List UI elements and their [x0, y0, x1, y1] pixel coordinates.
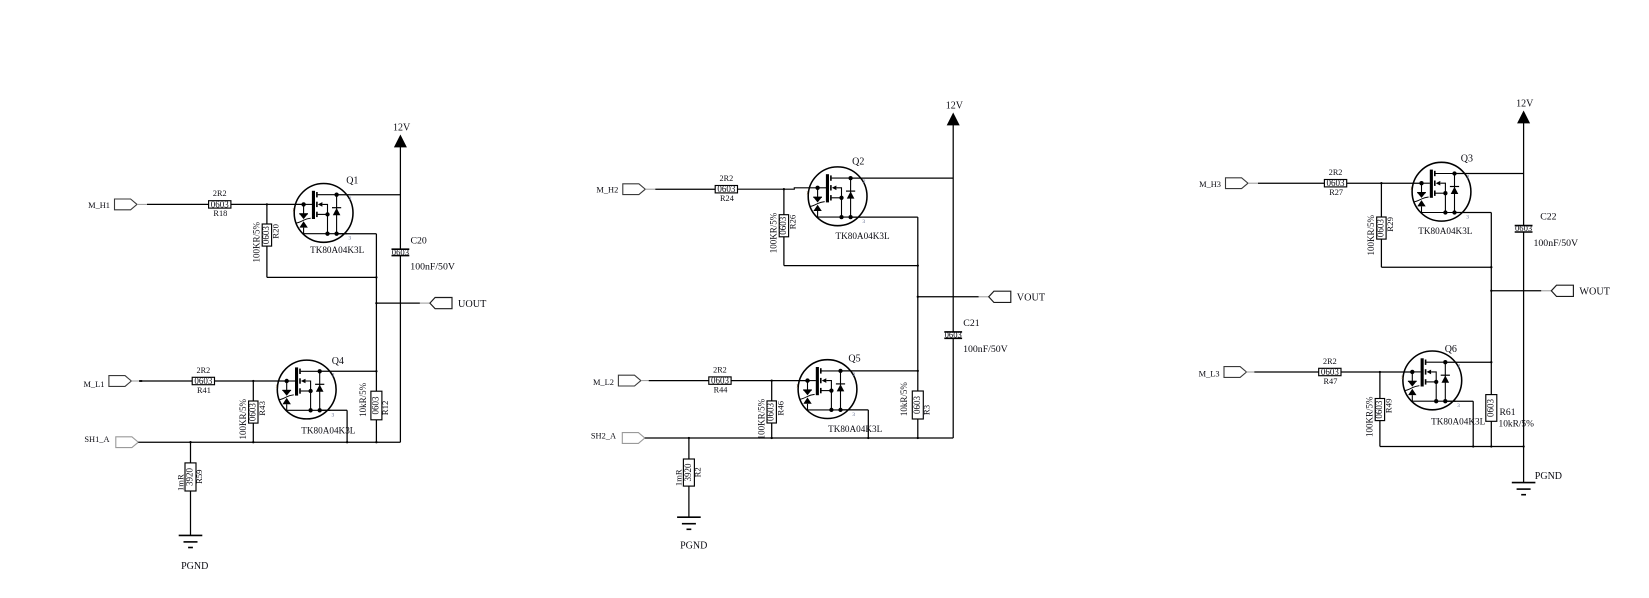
- wire R3 to bottom: [917, 419, 919, 438]
- wire M_H1 to R18: [147, 203, 209, 205]
- svg-text:10kR/5%: 10kR/5%: [899, 382, 909, 417]
- wire M_L1 to R41: [139, 380, 192, 382]
- svg-text:0603: 0603: [392, 247, 409, 257]
- wire R20 to source node: [267, 276, 377, 278]
- svg-text:C21: C21: [963, 318, 979, 329]
- resistor R26 body: [779, 215, 788, 237]
- svg-text:R49: R49: [1384, 398, 1394, 413]
- resistor R24 body: [715, 186, 737, 193]
- wire source node to R61: [1490, 362, 1492, 394]
- svg-text:TK80A04K3L: TK80A04K3L: [836, 231, 890, 241]
- wire R24 to gate of Q2: [738, 188, 818, 189]
- svg-text:2R2: 2R2: [213, 189, 227, 198]
- svg-text:M_L3: M_L3: [1199, 369, 1220, 378]
- svg-text:R18: R18: [213, 209, 227, 218]
- svg-text:0603: 0603: [370, 396, 380, 415]
- ground PGND section 2: [677, 517, 701, 529]
- wire M_L2 to R44: [649, 380, 709, 382]
- svg-text:3920: 3920: [184, 467, 194, 486]
- port M_H1 connector: [115, 199, 138, 210]
- wire R49 to bottom: [1379, 421, 1381, 447]
- svg-text:1mR: 1mR: [175, 474, 185, 491]
- wire M_H2 to R24: [655, 188, 715, 190]
- wire R46 to bottom: [771, 423, 773, 438]
- ground PGND section 1: [179, 535, 203, 547]
- wire section3 bottom net: [1380, 446, 1524, 448]
- transistor Q2 (TK80A04K3L): [806, 167, 867, 226]
- svg-text:R59: R59: [194, 470, 204, 484]
- svg-text:WOUT: WOUT: [1579, 287, 1610, 298]
- wire rail to ground: [1523, 447, 1525, 483]
- wire M_H1 lead: [137, 203, 147, 205]
- junction SH1_A Q4 source: [346, 441, 348, 443]
- svg-text:R2: R2: [693, 467, 703, 477]
- port SH1_A connector: [116, 437, 139, 448]
- wire output lead: [979, 296, 989, 298]
- svg-text:2R2: 2R2: [197, 366, 211, 375]
- wire source node vertical: [1490, 213, 1492, 363]
- svg-text:0603: 0603: [717, 184, 736, 194]
- resistor R18 body: [209, 201, 231, 208]
- svg-text:VOUT: VOUT: [1017, 293, 1046, 304]
- capacitor C20 bottom plate: [392, 255, 410, 257]
- wire M_H3 lead: [1248, 182, 1258, 184]
- wire R26 down: [783, 237, 785, 266]
- port WOUT connector: [1551, 285, 1573, 296]
- resistor R2 body: [683, 459, 694, 486]
- svg-text:R41: R41: [197, 386, 211, 395]
- resistor R49 body: [1375, 399, 1384, 421]
- wire gate to R29: [1380, 183, 1382, 217]
- capacitor C21 top plate: [944, 331, 962, 333]
- junction R44-R46: [771, 379, 773, 381]
- port VOUT connector: [989, 291, 1011, 302]
- wire output: [1491, 290, 1541, 292]
- junction SH2_A Q5 source: [867, 437, 869, 439]
- wire Q6 drain to source node: [1445, 361, 1491, 363]
- svg-text:R20: R20: [271, 223, 281, 238]
- resistor R20 body: [262, 224, 271, 246]
- svg-text:0603: 0603: [247, 403, 257, 422]
- transistor Q4 (TK80A04K3L): [275, 360, 336, 419]
- junction bottom R61: [1490, 445, 1492, 447]
- junction R18-R20: [266, 203, 268, 205]
- junction SH1_A shunt: [189, 441, 191, 443]
- svg-text:0603: 0603: [1374, 400, 1384, 419]
- wire R18 to gate of Q1: [231, 203, 304, 205]
- svg-text:3920: 3920: [683, 463, 693, 482]
- svg-text:100KR/5%: 100KR/5%: [1365, 396, 1375, 437]
- wire gate to R20: [266, 204, 268, 224]
- port M_H3 connector: [1226, 178, 1249, 189]
- wire M_L2 lead: [641, 380, 649, 382]
- svg-text:100nF/50V: 100nF/50V: [1534, 238, 1579, 249]
- resistor R29 body: [1377, 217, 1386, 239]
- resistor R44 body: [709, 377, 731, 384]
- wire R20 down: [266, 246, 268, 277]
- wire output lead: [420, 302, 430, 304]
- wire gate to R46: [771, 381, 773, 401]
- wire Q4 source down: [346, 410, 348, 442]
- svg-text:0603: 0603: [778, 216, 788, 235]
- wire Q2 drain to 12V: [851, 177, 954, 179]
- junction R47-R49: [1379, 371, 1381, 373]
- svg-text:R24: R24: [720, 194, 735, 203]
- svg-text:C20: C20: [411, 235, 427, 246]
- svg-text:2R2: 2R2: [713, 365, 727, 374]
- junction R26 source node: [917, 264, 919, 266]
- resistor R12 body: [371, 391, 382, 420]
- svg-text:TK80A04K3L: TK80A04K3L: [310, 245, 364, 255]
- port M_L2 connector: [618, 375, 641, 386]
- wire M_H2 lead: [645, 188, 655, 190]
- power 12V arrow: [1518, 112, 1529, 123]
- svg-text:Q1: Q1: [346, 176, 358, 187]
- wire gate to R49: [1379, 372, 1381, 399]
- wire R2 to ground: [688, 486, 690, 517]
- wire Q6 source lead: [1445, 400, 1473, 402]
- svg-text:M_H1: M_H1: [88, 201, 110, 210]
- wire M_L1 stub: [139, 380, 142, 382]
- transistor Q3 (TK80A04K3L): [1410, 162, 1471, 221]
- wire source node to R12: [375, 390, 377, 392]
- wire M_L3 to R47: [1254, 371, 1318, 373]
- svg-text:R47: R47: [1324, 377, 1338, 386]
- resistor R27 body: [1324, 180, 1346, 187]
- power 12V arrow: [395, 136, 406, 147]
- port M_L3 connector: [1224, 367, 1247, 378]
- wire 12V rail upper: [1523, 123, 1525, 226]
- svg-text:M_H2: M_H2: [596, 186, 618, 195]
- capacitor C20 top plate: [392, 248, 410, 250]
- svg-text:M_H3: M_H3: [1199, 180, 1221, 189]
- svg-text:0603: 0603: [912, 396, 922, 415]
- capacitor C22 top plate: [1515, 225, 1533, 227]
- svg-text:R61: R61: [1500, 407, 1516, 418]
- wire gate to R43: [252, 381, 254, 401]
- wire Q4 drain to source node: [320, 370, 377, 372]
- svg-text:UOUT: UOUT: [458, 299, 487, 310]
- wire SH1_A net: [138, 441, 400, 443]
- svg-text:12V: 12V: [1516, 99, 1534, 110]
- port UOUT connector: [430, 298, 452, 309]
- junction SH2_A R3: [917, 437, 919, 439]
- wire output: [376, 302, 420, 304]
- transistor Q1 (TK80A04K3L): [292, 184, 353, 243]
- svg-text:0603: 0603: [766, 403, 776, 422]
- svg-text:Q5: Q5: [848, 354, 860, 365]
- svg-text:TK80A04K3L: TK80A04K3L: [828, 424, 882, 434]
- wire Q6 source down: [1472, 401, 1474, 446]
- wire SH2_A net: [645, 437, 953, 439]
- svg-text:100KR/5%: 100KR/5%: [238, 398, 248, 439]
- junction R29 source node: [1490, 266, 1492, 268]
- resistor R46 body: [767, 401, 776, 423]
- svg-text:M_L2: M_L2: [593, 378, 614, 387]
- svg-text:SH2_A: SH2_A: [591, 431, 616, 440]
- svg-text:R43: R43: [257, 400, 267, 415]
- resistor R3 body: [912, 391, 923, 419]
- svg-text:PGND: PGND: [181, 561, 208, 572]
- svg-text:M_L1: M_L1: [83, 380, 104, 389]
- svg-text:PGND: PGND: [1535, 471, 1562, 482]
- capacitor C21 bottom plate: [944, 337, 962, 339]
- svg-text:R26: R26: [788, 214, 798, 229]
- svg-text:12V: 12V: [393, 123, 411, 134]
- resistor R41 body: [192, 377, 214, 384]
- wire SH2_A to R2: [688, 438, 690, 459]
- svg-text:0603: 0603: [261, 226, 271, 245]
- junction R20 source node: [375, 276, 377, 278]
- wire Q5 source lead: [841, 409, 869, 411]
- wire R44 to gate of Q5: [731, 380, 807, 382]
- resistor R43 body: [249, 401, 258, 423]
- wire R41 to gate of Q4: [215, 380, 287, 382]
- junction SH2_A R46: [771, 437, 773, 439]
- wire Q3 source out: [1455, 212, 1492, 214]
- svg-text:TK80A04K3L: TK80A04K3L: [1431, 416, 1485, 426]
- junction bottom rail: [1522, 445, 1524, 447]
- junction Q5 drain node: [917, 370, 919, 372]
- wire M_H3 to R27: [1258, 182, 1324, 184]
- wire gate to R26: [783, 189, 785, 215]
- wire source node vertical: [917, 217, 919, 371]
- port M_H2 connector: [623, 184, 646, 195]
- wire 12V rail upper: [952, 125, 954, 332]
- wire R47 to gate of Q6: [1341, 371, 1412, 373]
- svg-text:0603: 0603: [1327, 178, 1346, 188]
- wire Q3 drain to 12V: [1455, 173, 1524, 175]
- svg-text:2R2: 2R2: [1323, 357, 1337, 366]
- svg-text:R27: R27: [1329, 188, 1343, 197]
- junction output node: [375, 302, 377, 304]
- wire R27 to gate of Q3: [1347, 182, 1422, 184]
- wire R59 to ground: [190, 491, 192, 535]
- junction Q4 drain node: [375, 370, 377, 372]
- svg-text:2R2: 2R2: [1329, 168, 1343, 177]
- svg-text:12V: 12V: [946, 101, 964, 112]
- wire 12V rail lower: [1523, 232, 1525, 447]
- junction R27-R29: [1380, 182, 1382, 184]
- power 12V arrow: [948, 114, 959, 125]
- svg-text:0603: 0603: [711, 376, 730, 386]
- resistor R61 body: [1486, 395, 1497, 422]
- svg-text:100nF/50V: 100nF/50V: [963, 344, 1008, 355]
- wire Q5 source down: [867, 410, 869, 438]
- svg-text:R44: R44: [714, 385, 729, 394]
- svg-text:TK80A04K3L: TK80A04K3L: [1418, 226, 1472, 236]
- svg-text:1mR: 1mR: [674, 469, 684, 486]
- junction output node: [917, 296, 919, 298]
- junction SH2_A shunt: [688, 437, 690, 439]
- svg-text:R46: R46: [775, 400, 785, 415]
- svg-text:R3: R3: [921, 404, 931, 415]
- transistor Q5 (TK80A04K3L): [796, 360, 857, 419]
- junction R41-R43: [252, 380, 254, 382]
- svg-text:0603: 0603: [211, 199, 230, 209]
- svg-text:C22: C22: [1540, 212, 1556, 223]
- junction Q6 drain node: [1490, 361, 1492, 363]
- svg-text:0603: 0603: [945, 330, 962, 340]
- wire output lead: [1541, 290, 1551, 292]
- wire R26 to source node: [784, 265, 918, 267]
- wire R29 to source node: [1381, 266, 1491, 268]
- wire source node to R3: [917, 371, 919, 391]
- port SH2_A connector: [622, 433, 645, 444]
- svg-text:100KR/5%: 100KR/5%: [1366, 214, 1376, 255]
- svg-text:0603: 0603: [1515, 223, 1532, 233]
- ground PGND section 3: [1512, 483, 1536, 495]
- wire Q1 source out: [337, 233, 377, 235]
- svg-text:100KR/5%: 100KR/5%: [252, 221, 262, 262]
- wire M_L1 lead: [131, 380, 139, 382]
- svg-text:Q3: Q3: [1461, 154, 1473, 165]
- svg-text:PGND: PGND: [680, 541, 707, 552]
- svg-text:0603: 0603: [194, 376, 213, 386]
- svg-text:R29: R29: [1385, 216, 1395, 231]
- wire Q1 drain to 12V: [337, 194, 401, 196]
- wire 12V rail lower: [399, 256, 401, 443]
- wire R61 to bottom: [1490, 421, 1492, 446]
- svg-text:100nF/50V: 100nF/50V: [410, 262, 455, 273]
- wire Q5 drain to source node: [841, 370, 918, 372]
- port M_L1 connector: [109, 376, 131, 387]
- svg-text:10kR/5%: 10kR/5%: [358, 382, 368, 417]
- wire 12V rail upper: [399, 147, 401, 249]
- wire M_L3 lead: [1247, 371, 1255, 373]
- svg-text:0603: 0603: [1375, 219, 1385, 238]
- wire SH1_A to R59: [190, 442, 192, 463]
- junction bottom Q6 source: [1472, 445, 1474, 447]
- svg-text:R12: R12: [380, 401, 390, 416]
- capacitor C22 bottom plate: [1515, 231, 1533, 233]
- resistor R59 body: [185, 463, 196, 491]
- wire R43 to bottom: [252, 423, 254, 442]
- wire R29 down: [1380, 239, 1382, 267]
- svg-text:10kR/5%: 10kR/5%: [1499, 420, 1535, 430]
- junction R24-R26: [783, 188, 785, 190]
- svg-text:0603: 0603: [1485, 398, 1495, 417]
- wire 12V rail lower: [952, 338, 954, 438]
- svg-text:Q4: Q4: [332, 356, 344, 367]
- svg-text:100KR/5%: 100KR/5%: [757, 398, 767, 439]
- junction output node: [1490, 290, 1492, 292]
- resistor R47 body: [1319, 368, 1341, 375]
- svg-text:SH1_A: SH1_A: [84, 435, 109, 444]
- transistor Q6 (TK80A04K3L): [1401, 351, 1462, 410]
- svg-text:Q6: Q6: [1445, 344, 1457, 355]
- junction SH1_A R12: [375, 441, 377, 443]
- svg-text:100KR/5%: 100KR/5%: [769, 212, 779, 253]
- wire source node vertical: [375, 234, 377, 392]
- svg-text:2R2: 2R2: [720, 174, 734, 183]
- wire Q2 source out: [851, 216, 918, 218]
- svg-text:Q2: Q2: [852, 157, 864, 168]
- wire R12 to bottom: [375, 420, 377, 442]
- wire Q4 source lead: [320, 409, 347, 411]
- svg-text:0603: 0603: [1321, 367, 1340, 377]
- junction SH1_A R43: [252, 441, 254, 443]
- wire output: [918, 296, 979, 298]
